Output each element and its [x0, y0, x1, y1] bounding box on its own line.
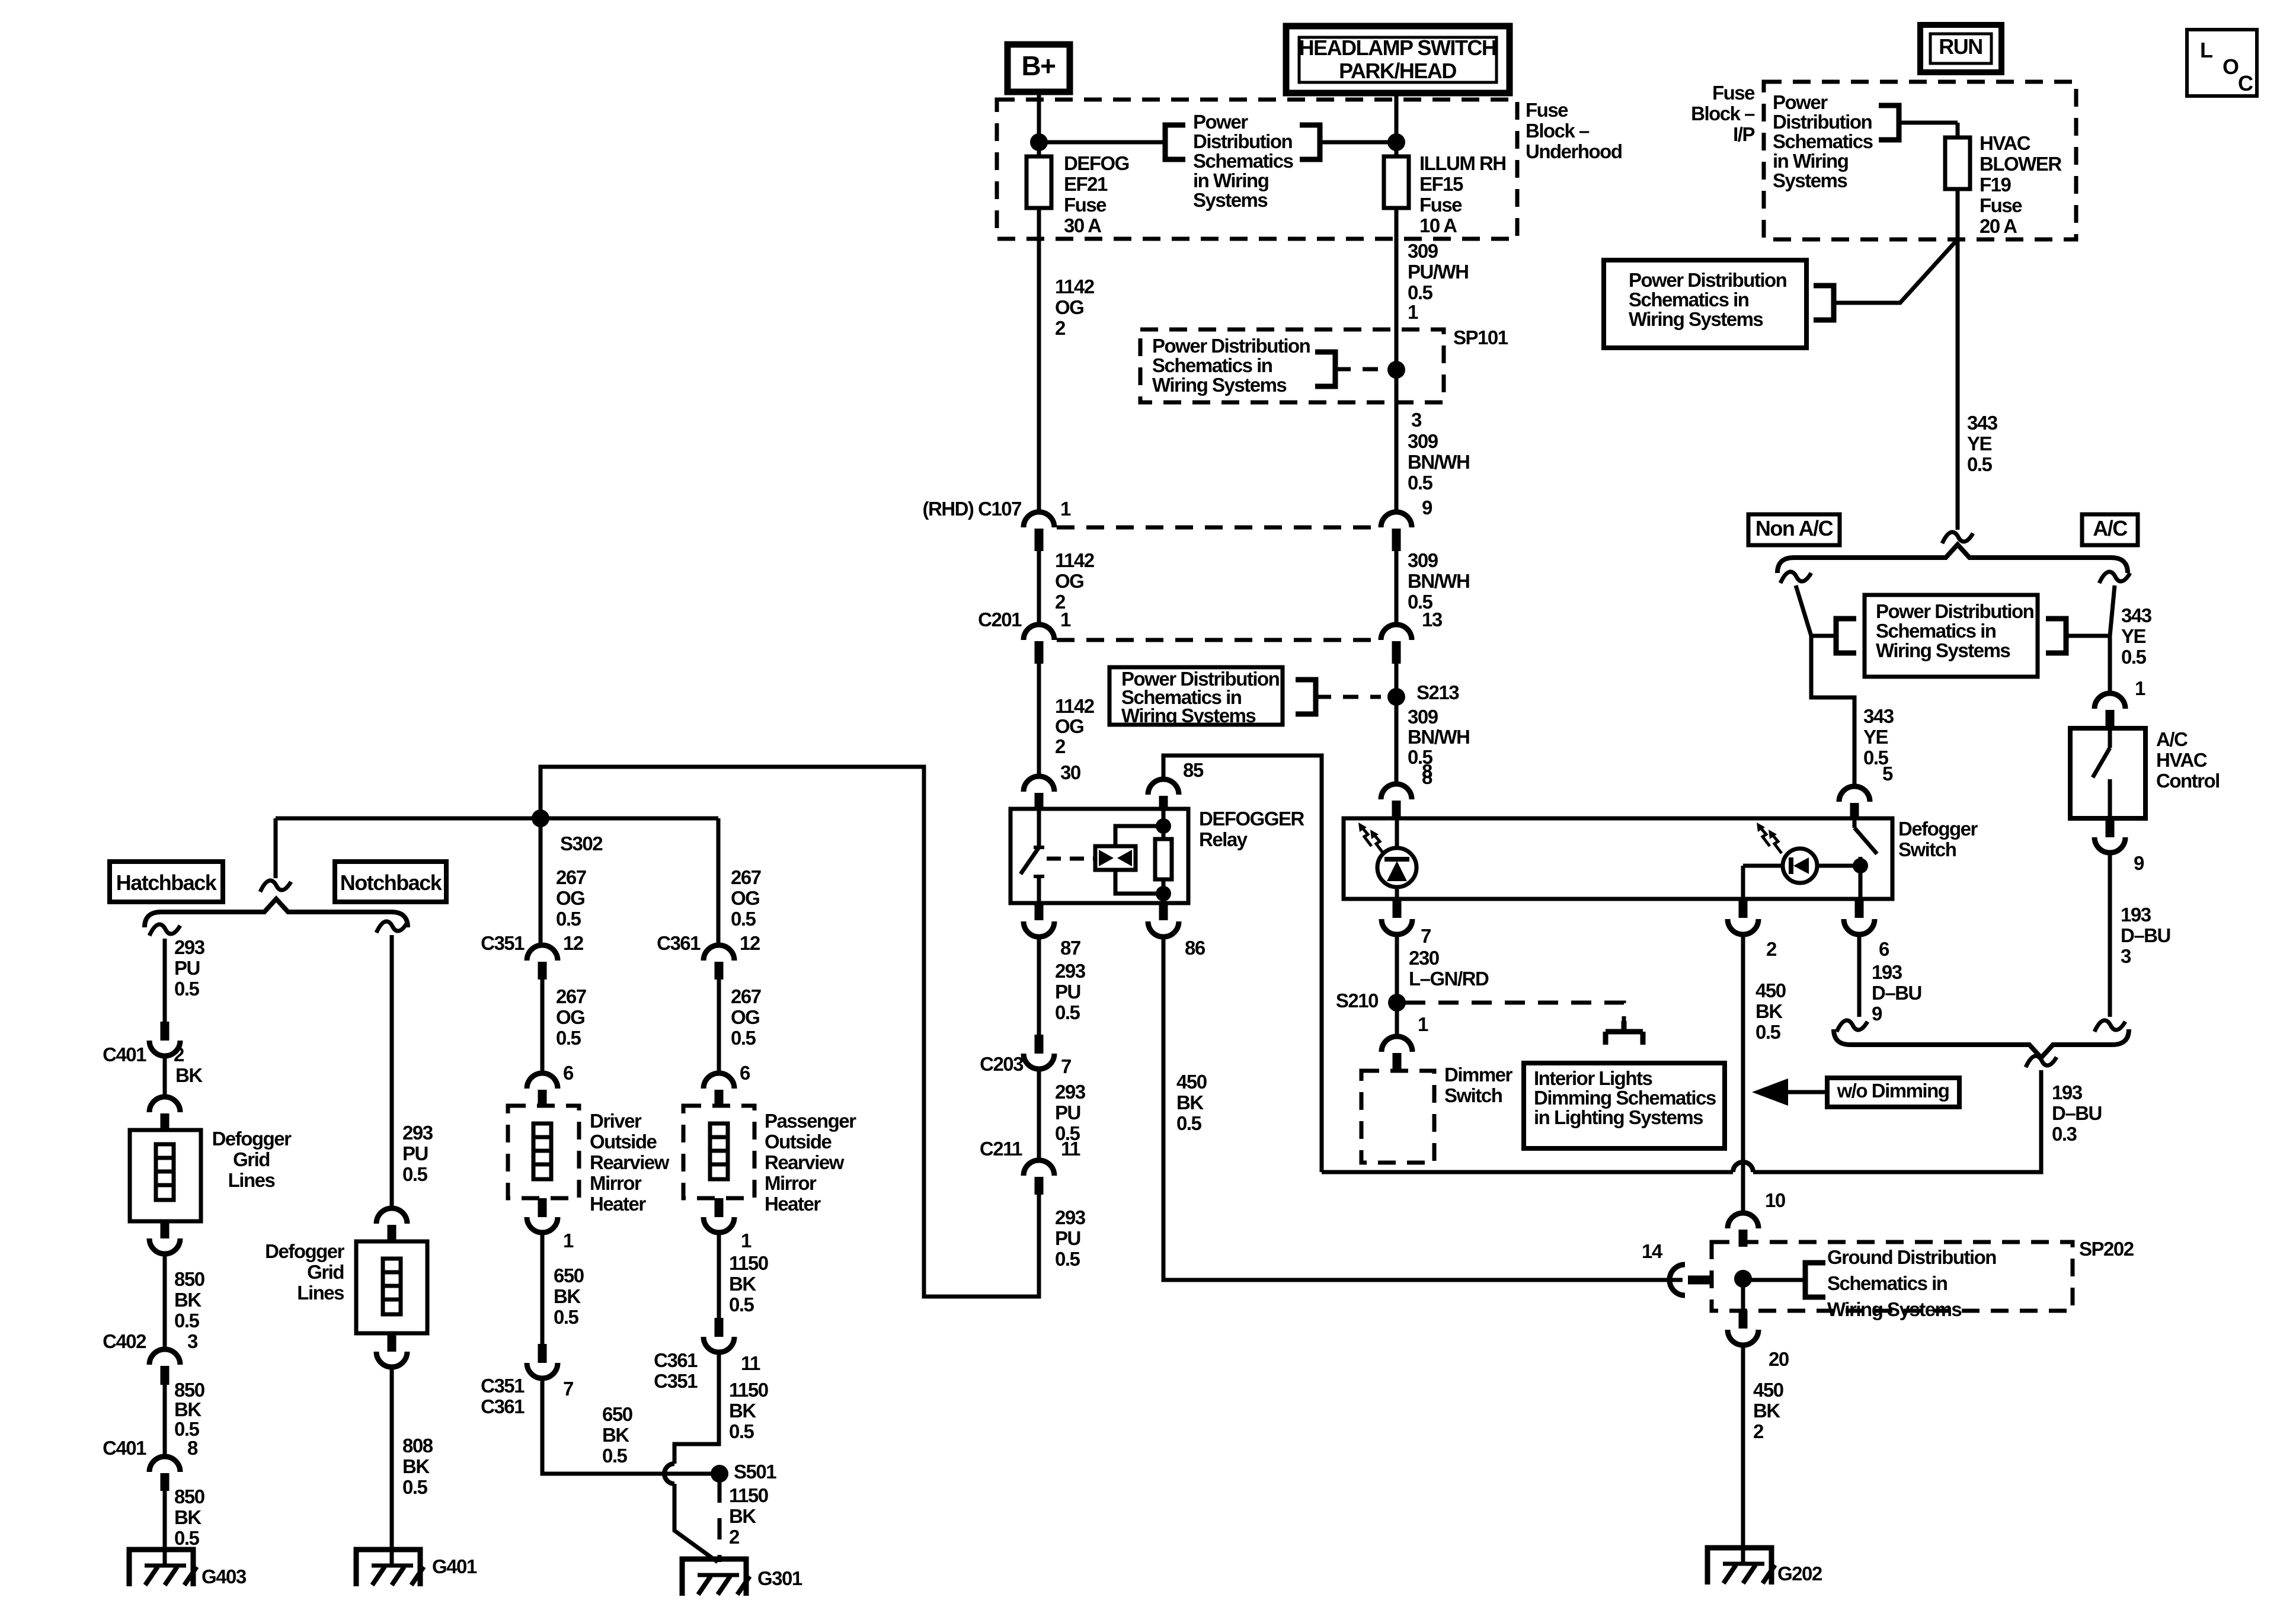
svg-text:1142OG2: 1142OG2 [1055, 695, 1095, 757]
wire and diagonal to HVAC wire [1834, 239, 1958, 303]
svg-text:Power DistributionSchematics i: Power DistributionSchematics inWiring Sy… [1629, 269, 1787, 330]
wire 309 BN/WH C107 to C201 [1395, 551, 1399, 626]
wire relay coil feed 85 from dimming loop [1163, 756, 1322, 1172]
svg-text:193D–BU3: 193D–BU3 [2121, 904, 2170, 967]
svg-text:S213: S213 [1416, 681, 1459, 703]
splice dot S213 [1387, 688, 1405, 706]
defogger switch pin 6 [1855, 899, 1864, 918]
svg-text:Power DistributionSchematics i: Power DistributionSchematics inWiring Sy… [1121, 668, 1280, 726]
svg-text:C201: C201 [978, 609, 1022, 630]
ground G401 [356, 1550, 420, 1586]
svg-text:293PU0.5: 293PU0.5 [1055, 1081, 1086, 1144]
svg-text:1: 1 [741, 1230, 752, 1251]
wire 293 PU C203 to C211 [1037, 1069, 1041, 1160]
svg-text:1: 1 [1060, 609, 1071, 630]
svg-text:FuseBlock –I/P: FuseBlock –I/P [1691, 82, 1755, 145]
bracket to Power Distribution (right) [1300, 125, 1320, 159]
svg-text:267OG0.5: 267OG0.5 [556, 985, 586, 1049]
svg-text:267OG0.5: 267OG0.5 [731, 866, 761, 930]
svg-text:PassengerOutsideRearviewMirror: PassengerOutsideRearviewMirrorHeater [765, 1110, 856, 1215]
hatchback branch curl [149, 924, 180, 936]
svg-text:1: 1 [563, 1230, 574, 1251]
svg-text:DEFOGEF21Fuse30 A: DEFOGEF21Fuse30 A [1064, 152, 1129, 236]
dashed link to S213 [1316, 695, 1381, 699]
svg-text:PowerDistributionSchematicsin: PowerDistributionSchematicsin WiringSyst… [1193, 111, 1293, 211]
reference box Power Distribution (S213) [1109, 667, 1283, 725]
wire bracket to HVAC fuse [1899, 121, 1958, 125]
dashed wire 1150 BK 2 to G301 [718, 1481, 722, 1562]
svg-text:12: 12 [563, 932, 584, 954]
wire 267 OG to driver mirror pin 6 [541, 980, 545, 1074]
wire 450 BK defogger switch pin2 down [1741, 934, 1745, 1214]
reference box Power Distribution (IP feed) [1604, 260, 1806, 348]
SP202 bracket [1805, 1263, 1825, 1297]
power feed B+ box [1008, 44, 1070, 92]
svg-text:C361C351: C361C351 [654, 1349, 698, 1392]
wire 230 L-GN/RD to S210 [1395, 934, 1399, 1037]
wire bracket to ILLUM feed [1320, 140, 1396, 145]
interior lights down bracket [1606, 1021, 1643, 1045]
merge output curl [2026, 1056, 2057, 1067]
svg-text:8: 8 [1422, 760, 1432, 782]
dashed link SP101 to wire [1335, 367, 1387, 372]
fuse F19 HVAC BLOWER 20A [1945, 137, 1970, 189]
svg-text:Power DistributionSchematics i: Power DistributionSchematics inWiring Sy… [1876, 600, 2034, 661]
hatchback grid lower pin [161, 1221, 170, 1238]
Fuse Block IP dashed box [1764, 82, 2076, 239]
RUN box [1920, 25, 2001, 72]
wire 293 PU notchback branch [390, 935, 394, 1209]
wire 343 YE AC branch [2110, 585, 2115, 694]
hatchback grid pin [149, 1097, 180, 1112]
svg-text:PARK/HEAD: PARK/HEAD [1339, 59, 1456, 83]
AC HVAC control switch [2108, 728, 2112, 748]
defogger relay box [1011, 809, 1188, 903]
svg-text:13: 13 [1422, 609, 1443, 630]
svg-text:PowerDistributionSchematicsin: PowerDistributionSchematicsin WiringSyst… [1773, 91, 1873, 191]
wire 650 BK down and right to S501 [542, 1378, 711, 1474]
relay pin 87 [1035, 903, 1044, 920]
ground G403 [129, 1550, 193, 1586]
dimming merge brace [1834, 1029, 2129, 1058]
svg-text:850BK0.5: 850BK0.5 [174, 1486, 204, 1549]
ground G301 [682, 1559, 746, 1596]
relay switch contact [1037, 809, 1041, 847]
splice S501 dot [711, 1465, 728, 1483]
svg-text:650BK0.5: 650BK0.5 [602, 1403, 632, 1467]
wire 850 BK grid to C402 [163, 1254, 167, 1350]
non-AC branch curl [1780, 572, 1811, 583]
svg-text:G301: G301 [757, 1567, 802, 1589]
svg-text:BK: BK [175, 1064, 203, 1086]
curl above AC option brace [1942, 532, 1973, 543]
notchback grid pin [376, 1208, 407, 1224]
wire 343 YE non-AC branch to defogger switch pin 5 [1796, 585, 1854, 787]
svg-text:1: 1 [1408, 301, 1418, 323]
wire 1142 OG below DEFOG fuse [1037, 208, 1041, 513]
svg-text:DriverOutsideRearviewMirrorHea: DriverOutsideRearviewMirrorHeater [590, 1110, 670, 1215]
driver outside rearview mirror heater box [508, 1106, 579, 1198]
relay pin 86 [1159, 903, 1168, 920]
svg-text:3: 3 [187, 1330, 198, 1352]
Fuse Block Underhood dashed box [997, 100, 1517, 239]
splice dot SP202 [1734, 1270, 1752, 1288]
wire 850 BK C401 to G403 [163, 1491, 167, 1566]
defogger switch pin 2 [1741, 866, 1745, 899]
illumination lamp LED [1395, 820, 1399, 849]
w/o Dimming box [1827, 1078, 1959, 1107]
wire 293 PU hatchback branch [163, 939, 167, 1022]
wire 267 OG to passenger mirror pin 6 [717, 980, 721, 1074]
connector C201 dashed body [1057, 638, 1379, 642]
svg-text:Notchback: Notchback [340, 870, 443, 895]
svg-text:450BK0.5: 450BK0.5 [1755, 980, 1786, 1043]
passenger mirror pin 1 [715, 1198, 724, 1217]
Hatchback option box [110, 862, 223, 902]
svg-text:C401: C401 [103, 1437, 146, 1459]
passenger outside rearview mirror heater box [683, 1106, 754, 1198]
svg-text:DimmerSwitch: DimmerSwitch [1444, 1064, 1513, 1106]
svg-text:1: 1 [2135, 677, 2145, 699]
svg-text:650BK0.5: 650BK0.5 [554, 1265, 584, 1328]
svg-text:B+: B+ [1021, 50, 1055, 81]
svg-text:293PU0.5: 293PU0.5 [1055, 960, 1086, 1023]
svg-text:C351C361: C351C361 [481, 1375, 525, 1417]
hop over 650 BK wire [664, 1464, 674, 1484]
svg-text:10: 10 [1765, 1189, 1785, 1211]
svg-text:Interior LightsDimming Schemat: Interior LightsDimming Schematicsin Ligh… [1534, 1067, 1716, 1128]
svg-text:C402: C402 [103, 1330, 146, 1352]
svg-text:G202: G202 [1777, 1563, 1822, 1585]
notchback grid lower pin [388, 1333, 396, 1352]
svg-text:450BK2: 450BK2 [1753, 1379, 1783, 1442]
svg-text:87: 87 [1060, 937, 1080, 959]
svg-text:A/CHVACControl: A/CHVACControl [2156, 728, 2220, 792]
svg-text:9: 9 [1422, 497, 1432, 518]
svg-text:6: 6 [1879, 938, 1889, 960]
svg-text:RUN: RUN [1939, 34, 1982, 59]
svg-text:14: 14 [1642, 1240, 1663, 1262]
svg-text:DefoggerSwitch: DefoggerSwitch [1898, 818, 1978, 860]
hatchback/notchback option brace [145, 899, 408, 927]
svg-text:Hatchback: Hatchback [116, 870, 218, 895]
wire S302 down to C351 pin 12 [539, 818, 543, 946]
svg-text:309BN/WH0.5: 309BN/WH0.5 [1408, 549, 1469, 613]
svg-text:(RHD) C107: (RHD) C107 [922, 498, 1021, 520]
relay actuating link dashes [1047, 857, 1093, 861]
AC branch curl [2099, 572, 2130, 583]
svg-text:293PU0.5: 293PU0.5 [174, 936, 205, 1000]
svg-text:193D–BU9: 193D–BU9 [1872, 961, 1921, 1025]
wire 309 PU/WH below ILLUM fuse [1395, 208, 1399, 513]
svg-text:309BN/WH0.5: 309BN/WH0.5 [1408, 430, 1469, 494]
svg-text:DEFOGGERRelay: DEFOGGERRelay [1199, 808, 1305, 850]
svg-text:3: 3 [1411, 409, 1422, 431]
relay solenoid bowtie [1095, 846, 1136, 870]
Notchback option box [335, 862, 446, 902]
svg-text:6: 6 [563, 1062, 574, 1084]
AC HVAC control pin 1 [2094, 693, 2125, 709]
wire C401 to hatchback grid [163, 1056, 167, 1097]
svg-text:1: 1 [1418, 1013, 1428, 1035]
wire 1142 OG C201 to relay pin 30 [1037, 664, 1041, 777]
LOC box [2187, 30, 2257, 96]
svg-text:S501: S501 [734, 1461, 776, 1483]
svg-text:C401: C401 [103, 1044, 146, 1065]
wire 193 D-BU 3 to merge brace [2108, 853, 2112, 1017]
svg-text:1150BK0.5: 1150BK0.5 [729, 1379, 768, 1442]
relay coil element [1162, 809, 1166, 839]
bracket to Power Distribution (left) [1165, 125, 1185, 159]
AC HVAC control pin 9 [2106, 818, 2115, 837]
svg-text:293PU0.5: 293PU0.5 [1055, 1206, 1086, 1270]
interior lights reference box [1524, 1063, 1725, 1148]
svg-text:DefoggerGridLines: DefoggerGridLines [212, 1128, 292, 1191]
bracket of IP reference box [1814, 286, 1834, 320]
svg-text:808BK0.5: 808BK0.5 [402, 1435, 433, 1498]
right bracket of AC reference box [2046, 619, 2066, 653]
wire dot to SP202 bracket [1743, 1278, 1805, 1282]
svg-text:ILLUM RHEF15Fuse10 A: ILLUM RHEF15Fuse10 A [1419, 152, 1506, 236]
hatchback defogger grid lines box [130, 1130, 201, 1221]
SP101 bracket [1315, 352, 1335, 386]
left bracket of AC reference box [1836, 619, 1856, 653]
dashed wire S210 to interior lights bracket [1405, 1003, 1624, 1021]
svg-text:8: 8 [187, 1437, 198, 1459]
Fuse Block IP bracket [1879, 105, 1899, 140]
connector C107 dashed body [1057, 526, 1379, 530]
connector C201 left half [1024, 625, 1054, 640]
svg-text:G403: G403 [202, 1566, 247, 1587]
hop of 193 wire over 450 BK wire [1733, 1162, 1753, 1172]
svg-text:C351: C351 [481, 932, 525, 954]
svg-text:5: 5 [1882, 763, 1893, 785]
junction dot on ILLUM feed [1387, 133, 1405, 151]
SP202 pin 20 [1741, 1279, 1745, 1311]
svg-text:C211: C211 [980, 1138, 1022, 1160]
svg-text:2: 2 [1766, 938, 1777, 960]
ground G202 [1707, 1548, 1771, 1585]
connector C107 left half [1024, 512, 1054, 527]
notchback defogger grid lines box [356, 1241, 427, 1333]
svg-text:230L–GN/RD: 230L–GN/RD [1409, 947, 1489, 990]
svg-text:1150BK2: 1150BK2 [729, 1484, 768, 1548]
svg-text:267OG0.5: 267OG0.5 [556, 866, 586, 930]
splice SP202 dashed box [1712, 1242, 2073, 1311]
svg-text:HEADLAMP SWITCH: HEADLAMP SWITCH [1299, 36, 1496, 60]
HEADLAMP SWITCH PARK/HEAD box [1286, 26, 1510, 93]
wire 850 BK C402 to C401 [163, 1385, 167, 1457]
connector C107 right half [1381, 512, 1412, 527]
wire S302 right corner down to C361 pin 12 [717, 818, 721, 946]
splice S210 dot [1388, 994, 1406, 1012]
svg-text:S302: S302 [560, 833, 603, 854]
svg-text:193D–BU0.3: 193D–BU0.3 [2052, 1081, 2102, 1145]
svg-text:343YE0.5: 343YE0.5 [1863, 705, 1894, 769]
svg-text:1: 1 [1060, 498, 1071, 520]
svg-text:SP101: SP101 [1453, 327, 1508, 348]
svg-text:309PU/WH0.5: 309PU/WH0.5 [1408, 240, 1469, 303]
wire 450 BK relay 86 to SP202 pin 14 [1163, 937, 1683, 1280]
svg-text:HVACBLOWERF19Fuse20 A: HVACBLOWERF19Fuse20 A [1980, 132, 2062, 237]
svg-text:A/C: A/C [2093, 516, 2128, 540]
S213 bracket [1296, 680, 1316, 714]
S302 horizontal wire [276, 817, 718, 821]
wire below HVAC fuse [1956, 189, 1960, 530]
svg-text:Power DistributionSchematics i: Power DistributionSchematics inWiring Sy… [1152, 335, 1310, 396]
svg-text:86: 86 [1185, 937, 1205, 959]
wire 309 BN/WH C201 to defogger switch pin 8 [1395, 664, 1399, 785]
svg-text:G401: G401 [432, 1555, 477, 1577]
switch blade in defogger switch [1853, 820, 1857, 828]
driver mirror pin 1 [538, 1198, 547, 1217]
svg-text:7: 7 [1061, 1055, 1071, 1077]
wire 808 BK grid to G401 [390, 1367, 394, 1566]
wire to power distribution bracket left [1039, 140, 1165, 145]
svg-text:SP202: SP202 [2079, 1238, 2134, 1260]
svg-text:Non A/C: Non A/C [1755, 516, 1834, 540]
defogger switch pin 7 [1393, 899, 1402, 918]
A/C option box [2082, 514, 2138, 545]
svg-text:1142OG2: 1142OG2 [1055, 276, 1095, 339]
switch pin6 merge curl [1837, 1020, 1868, 1032]
svg-text:7: 7 [563, 1378, 573, 1400]
svg-text:343YE0.5: 343YE0.5 [1967, 412, 1998, 475]
splice SP101 dashed box [1140, 329, 1444, 402]
svg-text:267OG0.5: 267OG0.5 [731, 985, 761, 1049]
wire into ground G301 diagonal [674, 1484, 718, 1562]
fuse EF15 ILLUM RH 10A [1384, 156, 1409, 208]
wire 450 BK 2 to ground G202 [1741, 1345, 1745, 1564]
svg-text:293PU0.5: 293PU0.5 [402, 1122, 433, 1185]
svg-text:w/o Dimming: w/o Dimming [1837, 1080, 1949, 1102]
wire 1142 OG C107 to C201 [1037, 551, 1041, 626]
Non A/C option box [1748, 514, 1840, 545]
svg-text:C361: C361 [657, 932, 701, 954]
wire B+ to DEFOG fuse [1037, 92, 1041, 156]
indicator LED in defogger switch [1783, 849, 1817, 883]
svg-text:C: C [2238, 71, 2253, 95]
w/o Dimming arrow [1788, 1090, 1827, 1094]
splice S302 dot [532, 809, 549, 827]
svg-text:20: 20 [1769, 1348, 1789, 1370]
svg-text:S210: S210 [1336, 990, 1378, 1012]
defogger switch box [1344, 818, 1892, 899]
svg-text:1150BK0.5: 1150BK0.5 [729, 1252, 768, 1315]
reference box Power Distribution (AC select) [1865, 595, 2038, 677]
svg-text:309BN/WH0.5: 309BN/WH0.5 [1408, 706, 1469, 768]
wire from HEADLAMP switch to ILLUM fuse [1395, 94, 1399, 156]
svg-text:9: 9 [2134, 852, 2144, 874]
splice dot SP101 [1387, 361, 1405, 379]
wire 1150 BK to C361/C351 pin 11 [717, 1233, 721, 1318]
connector C201 right half [1381, 625, 1412, 640]
svg-text:L: L [2200, 38, 2212, 62]
AC HVAC control box [2070, 728, 2145, 818]
svg-text:DefoggerGridLines: DefoggerGridLines [265, 1240, 345, 1304]
junction dot on B+ feed [1030, 133, 1048, 151]
defogger switch pin 5 [1839, 786, 1870, 802]
svg-text:11: 11 [741, 1352, 760, 1374]
svg-text:850BK0.5: 850BK0.5 [174, 1379, 204, 1440]
svg-text:85: 85 [1183, 759, 1204, 781]
svg-text:FuseBlock –Underhood: FuseBlock –Underhood [1526, 99, 1622, 162]
junction dot switch contact [1853, 858, 1868, 873]
svg-text:O: O [2223, 55, 2239, 79]
svg-text:12: 12 [740, 932, 760, 954]
dimmer switch dashed box [1361, 1071, 1434, 1163]
AC / non-AC option brace [1777, 545, 2128, 573]
wire 293 PU relay 87 to C203 [1037, 937, 1041, 1035]
defogger switch pin 6 wire to merge brace [1857, 937, 1862, 1017]
svg-text:30: 30 [1060, 761, 1080, 783]
AC branch merge curl [2094, 1020, 2125, 1032]
dimmer switch pin 1 [1382, 1036, 1412, 1052]
wire along bottom of dimming loop [1322, 1170, 1733, 1174]
svg-text:C203: C203 [980, 1053, 1024, 1075]
svg-text:850BK0.5: 850BK0.5 [174, 1268, 204, 1331]
notchback branch curl [376, 921, 407, 933]
svg-text:343YE0.5: 343YE0.5 [2121, 604, 2152, 668]
svg-text:1142OG2: 1142OG2 [1055, 549, 1095, 613]
svg-text:6: 6 [740, 1062, 750, 1084]
svg-text:450BK0.5: 450BK0.5 [1176, 1071, 1207, 1134]
fuse EF21 DEFOG 30A [1027, 156, 1051, 208]
svg-text:7: 7 [1421, 925, 1431, 947]
wire 650 BK driver mirror to C351/C361 pin 7 [541, 1233, 545, 1344]
wire S302 to hatchback/notchback brace [274, 818, 278, 878]
svg-text:11: 11 [1061, 1138, 1080, 1160]
wire 293 PU C211 down-left-up loop to S302 [541, 767, 1039, 1297]
wire 1150 BK jog to ground G301 [674, 1352, 719, 1464]
relay coil loop wiring [1115, 826, 1163, 846]
